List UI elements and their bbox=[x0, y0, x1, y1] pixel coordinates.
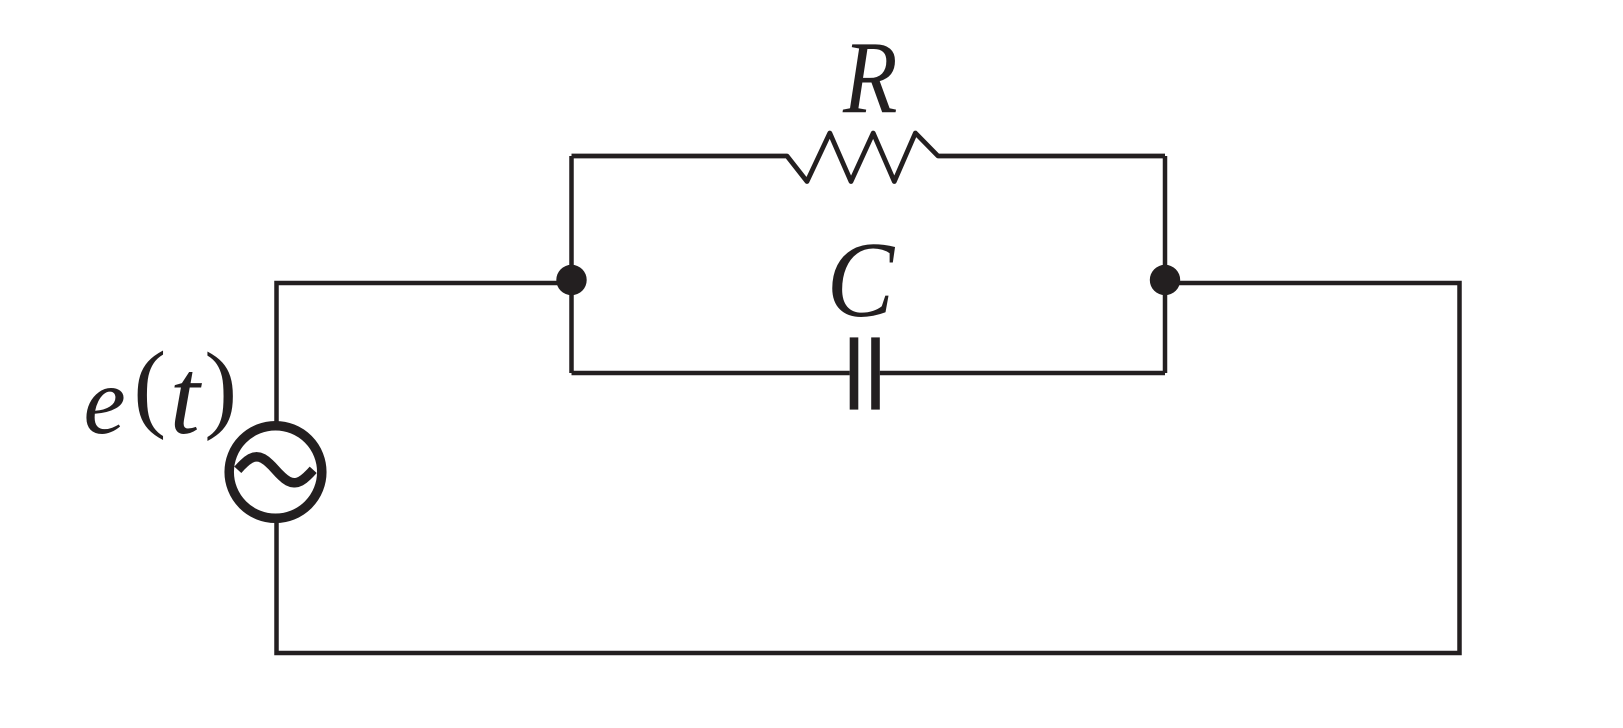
svg-text:t: t bbox=[170, 337, 203, 457]
svg-text:e: e bbox=[84, 348, 126, 454]
svg-text:(: ( bbox=[133, 332, 166, 441]
svg-text:R: R bbox=[842, 22, 897, 136]
svg-text:C: C bbox=[827, 220, 896, 340]
svg-text:): ) bbox=[204, 333, 237, 442]
